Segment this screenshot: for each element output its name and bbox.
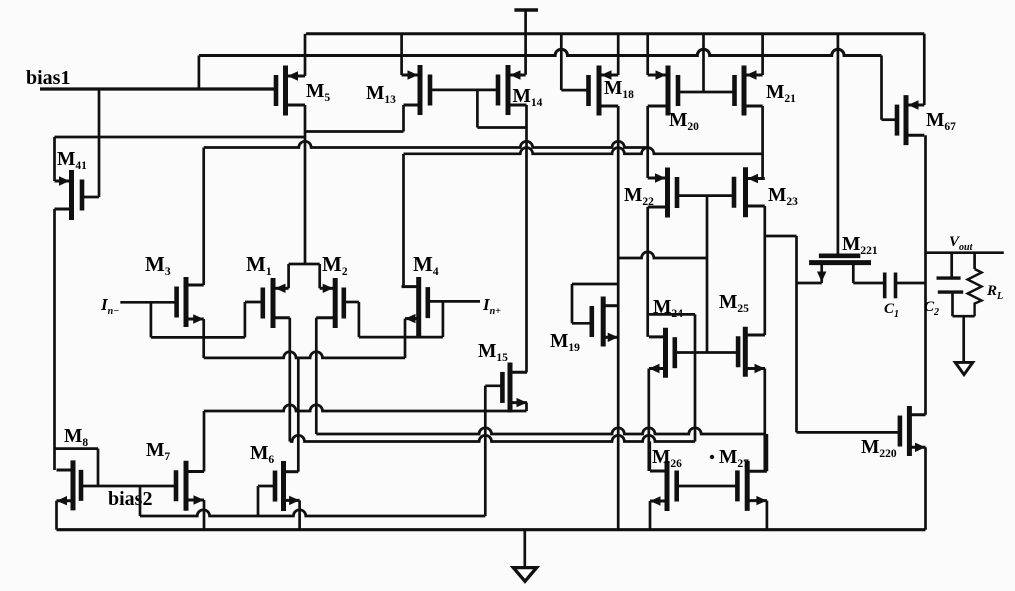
M21 drain wire: [761, 106, 764, 179]
M23 label: [768, 185, 798, 208]
load ground symbol: [955, 362, 973, 374]
M21 label: [766, 82, 796, 105]
M20 drain wire: [646, 106, 649, 178]
M5-M13 drain connector: [305, 130, 404, 133]
VDD top rail: [306, 32, 924, 35]
rail to M41: [55, 136, 306, 139]
M2 gate lead: [344, 301, 359, 304]
M8 gate-drain tie: [55, 449, 99, 486]
M2 drain line: [316, 428, 765, 434]
M41 drain wire / left bus: [53, 209, 56, 470]
C2 label: [924, 299, 939, 318]
In+ lead: [428, 300, 480, 303]
M13 label: [366, 83, 396, 106]
svg-text:bias2: bias2: [108, 488, 152, 510]
resistor RL: [968, 253, 982, 317]
M24 diode bracket: [649, 314, 695, 441]
M67 source wire: [923, 34, 926, 105]
M1 label: [246, 252, 272, 278]
M6 drain wire: [297, 358, 300, 472]
M67 gate tie: [882, 56, 898, 120]
M26 source wire: [649, 501, 652, 530]
cascode bus B: [204, 141, 648, 147]
RL label: [986, 283, 1003, 302]
M3 source wire: [202, 319, 205, 358]
M5 label: [306, 81, 330, 104]
svg-text:bias1: bias1: [26, 67, 70, 89]
M26 label: [652, 447, 682, 470]
transistor M25: [738, 327, 765, 377]
M41 source wire: [53, 137, 56, 181]
M7 drain line: [204, 405, 527, 411]
M13-M14 gate line: [430, 89, 498, 92]
M41 gate feed: [82, 89, 99, 197]
M7 label: [146, 440, 170, 463]
M20 source wire: [646, 34, 649, 75]
M19 gate tie: [572, 284, 618, 323]
transistor M19: [592, 297, 618, 347]
bias2 gate line: [81, 485, 176, 488]
M2 / M4 gate link: [359, 336, 443, 339]
transistor M18: [589, 66, 619, 116]
M13 drain wire: [402, 105, 405, 132]
M24-M25 gate line: [675, 351, 738, 354]
transistor M14: [498, 65, 527, 115]
M15 label: [478, 341, 508, 364]
transistor M1: [263, 278, 290, 328]
M26 drain wire: [648, 442, 651, 472]
M5 drain wire: [304, 105, 307, 264]
tail bracket: [289, 264, 320, 288]
transistor M20: [648, 66, 678, 116]
M1 drain wire: [288, 318, 291, 442]
In- drop: [150, 302, 153, 337]
M27 label: [710, 447, 749, 470]
output vertical: [924, 135, 927, 415]
transistor M8: [57, 460, 82, 510]
M221 label: [842, 234, 878, 257]
M27 drain wire: [766, 434, 769, 471]
M15 source link: [525, 403, 528, 411]
M23 drain wire: [763, 206, 766, 335]
bias1 input wire: [40, 87, 276, 90]
M4 label: [413, 252, 439, 278]
In- label: [100, 295, 119, 317]
transistor M27: [737, 461, 767, 511]
transistor M2: [316, 278, 344, 328]
M1 drain line: [290, 435, 695, 441]
M13 source wire: [400, 34, 403, 75]
ground symbol: [513, 530, 536, 582]
M7 source wire: [203, 500, 206, 530]
M26-M27 gate line: [677, 485, 738, 488]
M2 gate drop: [358, 302, 361, 337]
M4 drain wire: [402, 154, 405, 287]
M20-M21 gate line: [678, 91, 735, 94]
M25 label: [719, 292, 749, 315]
transistor M21: [735, 66, 763, 116]
M14 drain wire: [525, 105, 528, 372]
M20 label: [669, 110, 699, 133]
M22 drain wire: [646, 207, 649, 337]
M18 source wire: [617, 34, 620, 75]
In+ label: [482, 295, 501, 317]
Vout label: [949, 234, 974, 253]
capacitor C2: [937, 278, 964, 316]
C2 drop: [950, 253, 953, 278]
M22 label: [624, 185, 654, 208]
M1 gate drop: [244, 302, 247, 337]
M18 gate tie: [561, 34, 588, 90]
M221 gate riser: [837, 34, 840, 256]
M6 label: [250, 443, 274, 466]
capacitor C1: [885, 273, 926, 299]
M6 source wire: [298, 500, 301, 529]
M3 label: [145, 252, 171, 278]
M3-M4 source line: [204, 352, 405, 358]
transistor M220: [900, 406, 926, 456]
M8 label: [64, 426, 88, 449]
M20-M21 gate tie riser: [702, 34, 705, 92]
bias1 distribution line: [199, 49, 882, 55]
M2 drain wire: [315, 318, 318, 434]
M221 drain wire: [853, 282, 884, 285]
M220 source wire: [924, 447, 927, 529]
M13 gate-drain tie: [477, 90, 526, 128]
Vout line: [926, 251, 1004, 254]
M22-M23 gate line: [677, 194, 734, 197]
M6 gate tie: [258, 486, 275, 516]
transistor M5: [276, 66, 305, 116]
VDD symbol: [514, 10, 538, 75]
M22 gate-cascode drop: [706, 196, 709, 353]
M27 source wire: [766, 501, 769, 530]
transistor M13: [402, 65, 430, 115]
M5 source wire: [304, 34, 307, 76]
load ground stem: [962, 316, 965, 362]
M221 source tie: [797, 282, 822, 285]
transistor M7: [176, 461, 204, 511]
M4 source wire: [404, 319, 407, 358]
M18 drain bias line: [618, 252, 707, 258]
C1 label: [884, 301, 899, 320]
M18 drain wire: [617, 106, 620, 530]
load bottom bracket: [953, 315, 975, 318]
transistor M4: [402, 277, 428, 337]
transistor M221: [809, 256, 871, 283]
transistor M15: [502, 362, 527, 412]
transistor M23: [734, 167, 765, 217]
transistor M3: [177, 277, 204, 327]
In- lead: [120, 301, 176, 304]
transistor M24: [649, 328, 675, 378]
bias2 drop: [139, 486, 142, 516]
M7 drain wire: [203, 411, 206, 472]
transistor M41: [55, 170, 83, 220]
M23 drain jog: [765, 236, 797, 432]
bias2 distribution line: [140, 510, 485, 516]
M15 gate drop: [484, 386, 487, 516]
cascode bus C: [404, 148, 763, 154]
In- / M1 gate link: [151, 336, 245, 339]
M1 gate lead: [245, 301, 263, 304]
M24 source wire: [647, 369, 650, 472]
M14 label: [513, 86, 543, 109]
M18 label: [604, 78, 634, 101]
M3 drain wire: [202, 148, 205, 286]
transistor M22: [648, 168, 677, 218]
bias1 label: [26, 67, 70, 89]
M67 label: [926, 110, 956, 133]
M19 label: [550, 331, 580, 354]
bias1 riser: [198, 56, 201, 90]
M2 label: [322, 252, 348, 278]
M21 source wire: [761, 34, 764, 75]
M4 gate drop: [442, 301, 445, 337]
M25 source wire: [763, 369, 766, 472]
M220 label: [861, 437, 897, 460]
VSS rail: [57, 528, 926, 531]
bias2 label: [108, 488, 152, 510]
M24 label: [653, 297, 683, 320]
transistor M6: [275, 461, 300, 511]
M8 source wire: [55, 501, 58, 530]
M220 gate lead: [797, 431, 900, 434]
transistor M67: [897, 95, 924, 145]
M41 label: [57, 149, 87, 172]
transistor M26: [650, 461, 677, 511]
M15 gate lead: [485, 384, 502, 387]
